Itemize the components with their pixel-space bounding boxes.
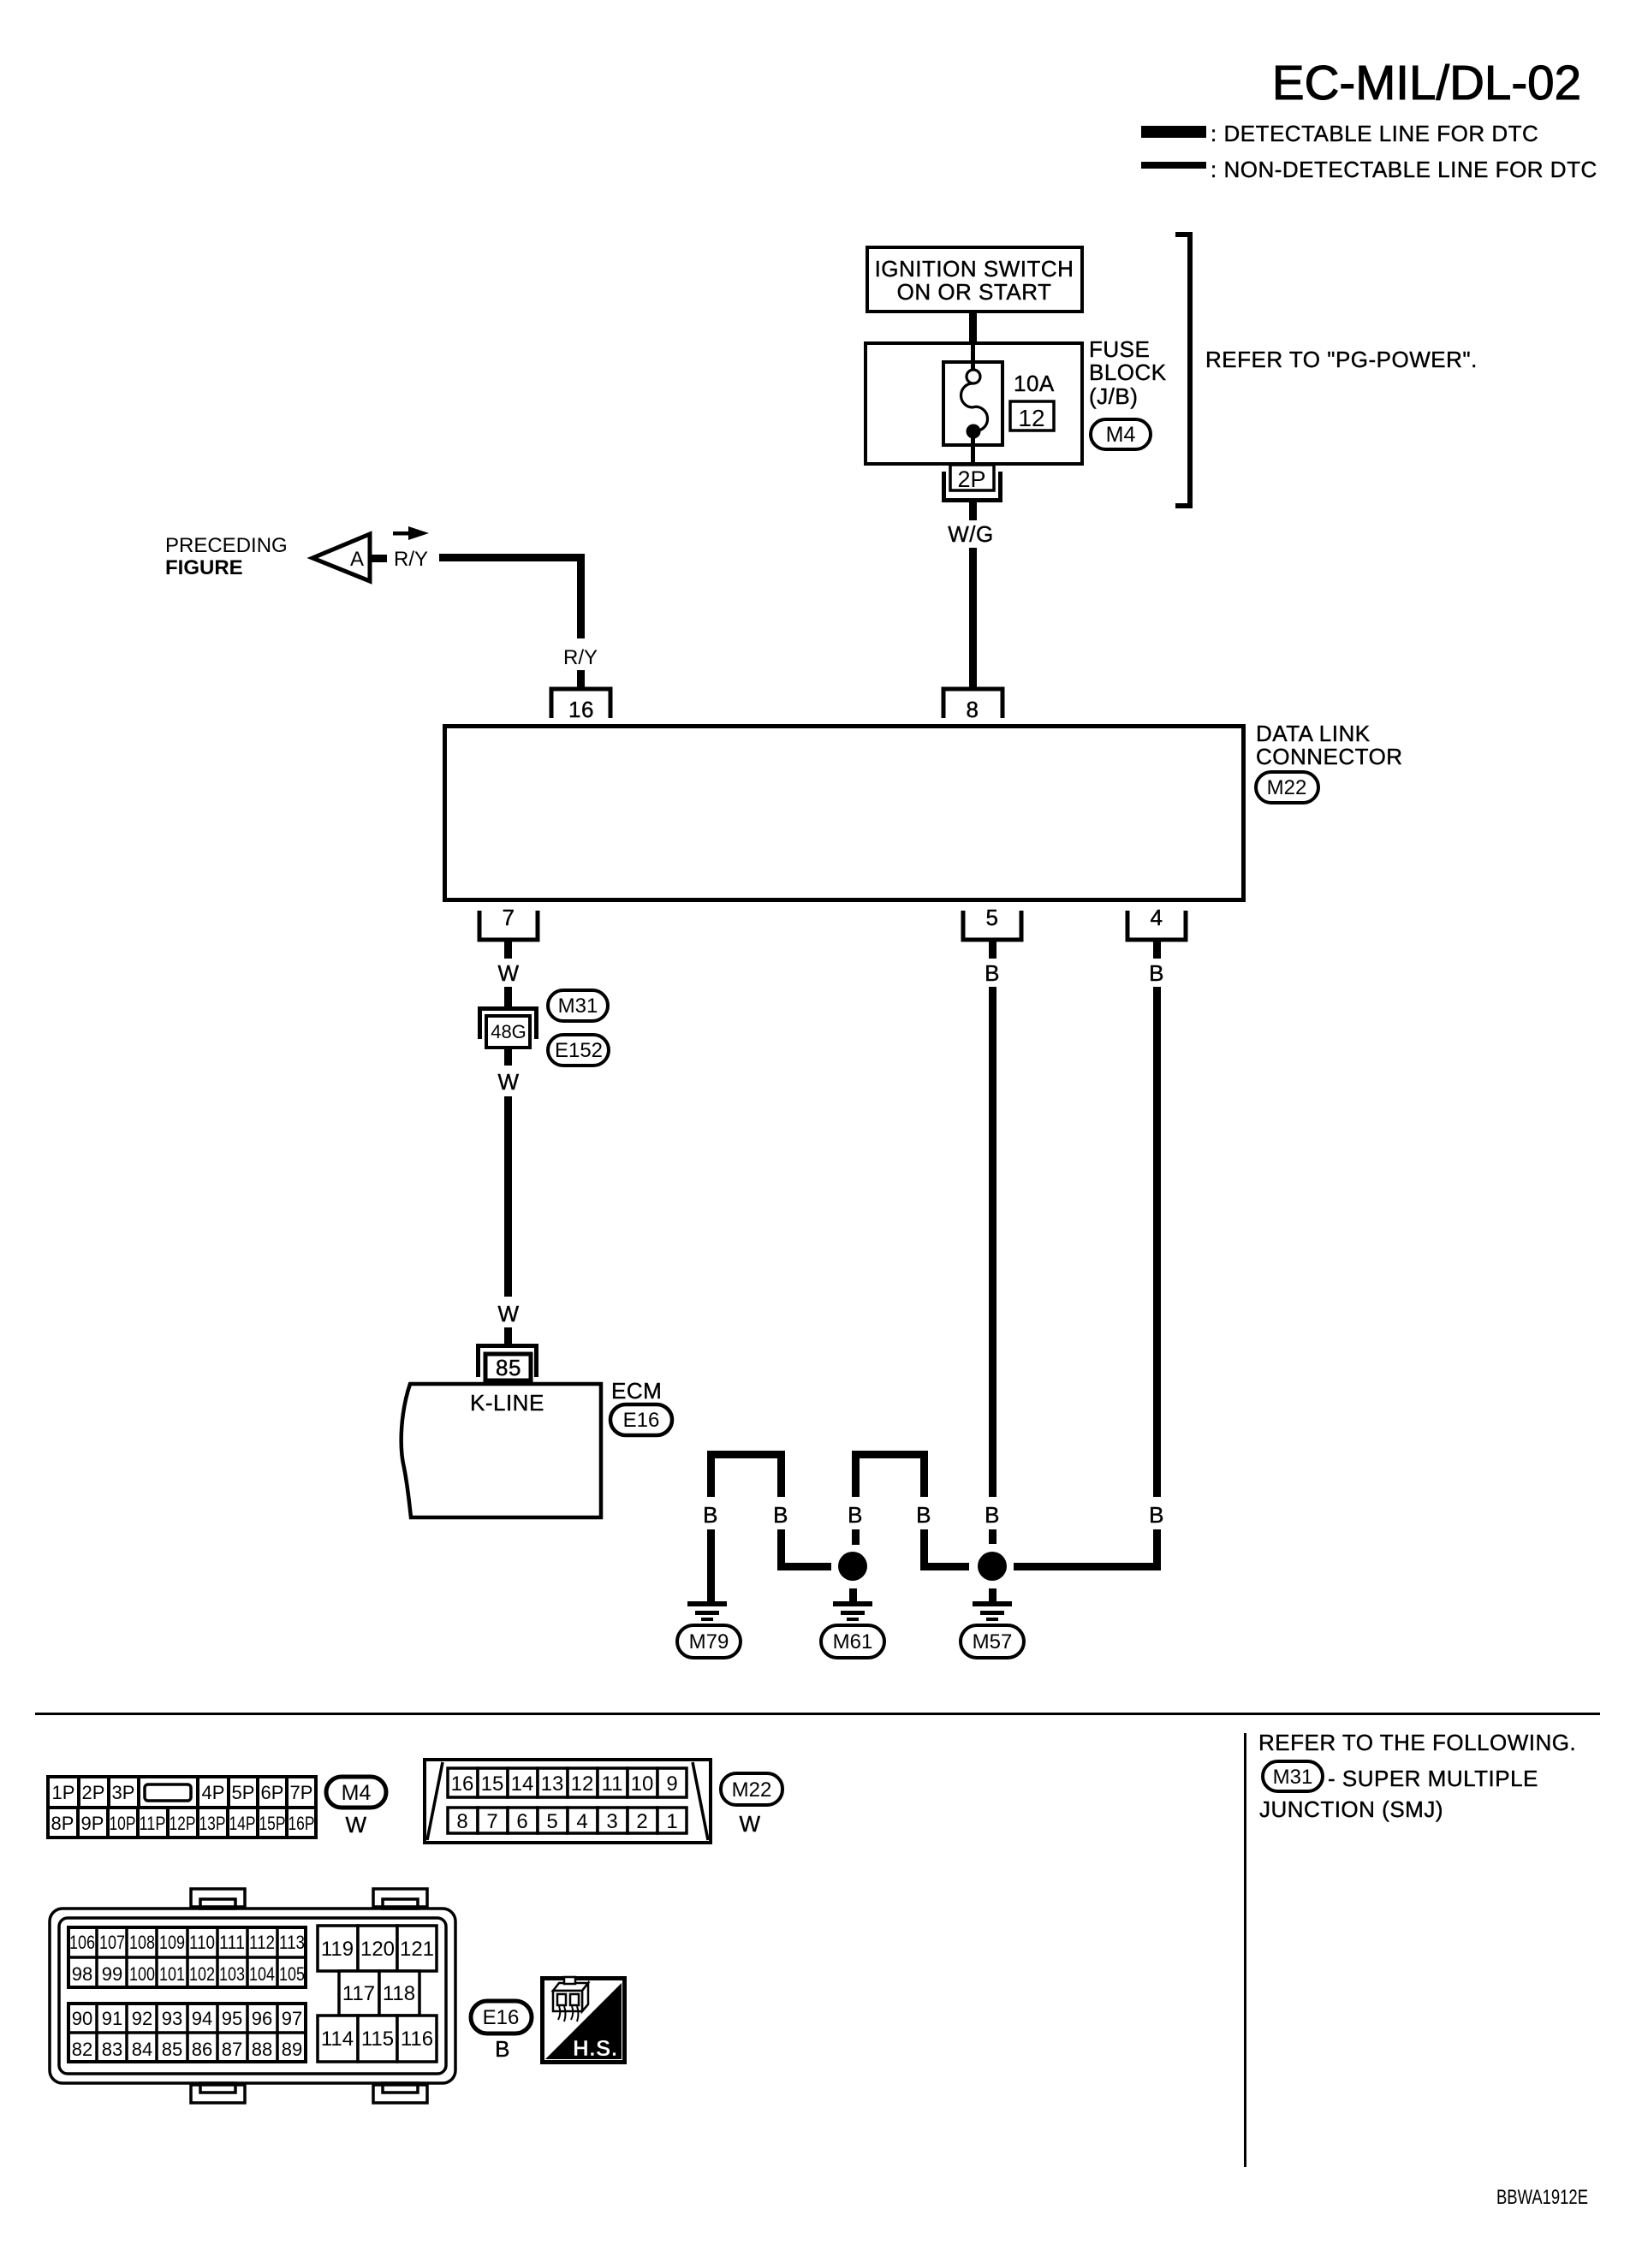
svg-text:9P: 9P [81, 1813, 104, 1834]
svg-text:EC-MIL/DL-02: EC-MIL/DL-02 [1272, 56, 1581, 110]
pin 7 of data link connector [479, 911, 538, 940]
wire pin 5 [989, 941, 996, 959]
svg-text:111: 111 [219, 1932, 245, 1953]
svg-text:A: A [350, 548, 364, 571]
svg-text:BLOCK: BLOCK [1089, 359, 1167, 385]
svg-text:2P: 2P [82, 1782, 105, 1803]
svg-text:W: W [497, 1069, 519, 1095]
svg-text:5: 5 [546, 1810, 557, 1833]
svg-text:82: 82 [72, 2039, 92, 2060]
svg-text:M22: M22 [1267, 776, 1307, 799]
ground loop 2 right leg lower [920, 1529, 928, 1570]
pin 5 of data link connector [963, 911, 1021, 940]
data link connector box [445, 727, 1244, 900]
svg-text:90: 90 [72, 2008, 92, 2029]
svg-text:M4: M4 [1106, 423, 1136, 447]
connector E16 shell (footer) [50, 1909, 455, 2083]
connector M31 oval [548, 990, 608, 1021]
svg-text:B: B [495, 2036, 510, 2062]
E16 pin block upper-left [68, 1927, 306, 1987]
pin 8 of data link connector [943, 689, 1002, 718]
svg-text:5: 5 [986, 905, 999, 930]
H.S. connector glyph [553, 1977, 588, 2011]
svg-text:48G: 48G [491, 1021, 526, 1042]
SMJ connector 48G bracket [478, 1006, 538, 1011]
svg-text:ECM: ECM [611, 1378, 662, 1404]
svg-text:118: 118 [383, 1982, 415, 2005]
ground symbol M61 [833, 1601, 872, 1606]
svg-text:88: 88 [252, 2039, 272, 2060]
svg-text:3: 3 [606, 1810, 617, 1833]
connector M22 oval (footer) [721, 1773, 782, 1805]
svg-text:97: 97 [282, 2008, 302, 2029]
svg-text:108: 108 [129, 1932, 155, 1953]
fuse holder box [943, 362, 1002, 445]
svg-text:B: B [916, 1502, 931, 1528]
svg-text:95: 95 [222, 2008, 242, 2029]
wire 48G down [504, 1049, 512, 1066]
E16 pin block lower-left [68, 2004, 306, 2062]
svg-text:91: 91 [102, 2008, 122, 2029]
svg-text:104: 104 [249, 1963, 275, 1985]
svg-text:REFER TO "PG-POWER".: REFER TO "PG-POWER". [1205, 347, 1478, 372]
svg-text:DATA LINK: DATA LINK [1256, 721, 1371, 746]
svg-text:6P: 6P [261, 1782, 284, 1803]
connector M61 oval [821, 1625, 884, 1658]
svg-text:15: 15 [481, 1772, 504, 1796]
svg-text:114: 114 [321, 2028, 354, 2051]
svg-text:B: B [1149, 1502, 1164, 1528]
ground loop 2 left leg lower [852, 1529, 860, 1545]
ground loop 1 right leg lower [777, 1529, 785, 1570]
svg-text:14P: 14P [229, 1813, 256, 1834]
ground symbol M57 [973, 1601, 1012, 1606]
ground loop 1 left leg [707, 1451, 715, 1497]
wire long run to ECM [504, 1096, 512, 1297]
ground loop 1 left leg lower / wire to M79 ground [707, 1529, 715, 1602]
svg-text:M22: M22 [732, 1778, 772, 1802]
svg-text:10A: 10A [1014, 371, 1055, 396]
svg-text:113: 113 [279, 1932, 305, 1953]
svg-text:110: 110 [189, 1932, 215, 1953]
svg-text:85: 85 [496, 1355, 521, 1380]
svg-text:M61: M61 [833, 1630, 873, 1654]
svg-text:2P: 2P [957, 466, 985, 492]
svg-text:16: 16 [568, 697, 594, 722]
svg-text:W: W [497, 960, 519, 986]
svg-text:CONNECTOR: CONNECTOR [1256, 744, 1403, 769]
svg-text:120: 120 [360, 1938, 395, 1961]
svg-text:99: 99 [102, 1963, 122, 1985]
legend detectable line swatch [1141, 126, 1206, 138]
legend non-detectable line swatch [1141, 162, 1206, 169]
svg-text:W: W [345, 1812, 366, 1838]
svg-text:16P: 16P [289, 1813, 315, 1834]
ground loop 2 top bar [852, 1451, 928, 1458]
svg-text:1: 1 [666, 1810, 677, 1833]
svg-text:M57: M57 [973, 1630, 1013, 1654]
svg-text:W: W [739, 1811, 760, 1837]
svg-text:116: 116 [401, 2028, 433, 2051]
svg-text:15P: 15P [259, 1813, 286, 1834]
svg-text:93: 93 [162, 2008, 182, 2029]
connector E16 oval (footer) [471, 2001, 532, 2033]
svg-text:2: 2 [636, 1810, 647, 1833]
svg-text:8: 8 [967, 697, 979, 722]
svg-text:119: 119 [321, 1938, 354, 1961]
triangle connector A to preceding figure [312, 534, 370, 581]
wire to pin 85 [504, 1327, 512, 1346]
svg-text:8P: 8P [51, 1813, 74, 1834]
svg-text:94: 94 [192, 2008, 212, 2029]
svg-text:106: 106 [69, 1932, 95, 1953]
svg-text:B: B [703, 1502, 718, 1528]
pin 85 bracket [476, 1344, 538, 1348]
svg-text:4: 4 [1151, 905, 1163, 930]
svg-text:W: W [497, 1301, 519, 1327]
wire R/Y to pin 16 [577, 670, 585, 688]
svg-text:12P: 12P [170, 1813, 196, 1834]
junction dot M57 [978, 1552, 1007, 1581]
E16 pin block right [318, 1926, 437, 2062]
connector E152 oval [548, 1035, 609, 1066]
svg-text:83: 83 [102, 2039, 122, 2060]
svg-text:112: 112 [249, 1932, 275, 1953]
connector M4 oval (footer) [326, 1777, 386, 1808]
svg-text:89: 89 [282, 2039, 302, 2060]
svg-text:: DETECTABLE LINE FOR DTC: : DETECTABLE LINE FOR DTC [1211, 121, 1538, 146]
connector 2P box [950, 465, 994, 490]
wire W to 48G [504, 987, 512, 1011]
pin 4 of data link connector [1127, 911, 1186, 940]
ignition switch box [867, 247, 1082, 312]
ground loop 2 left leg [852, 1451, 860, 1497]
svg-text:14: 14 [511, 1772, 534, 1796]
svg-text:10P: 10P [110, 1813, 136, 1834]
svg-text:11P: 11P [140, 1813, 166, 1834]
svg-text:7: 7 [486, 1810, 497, 1833]
svg-text:M31: M31 [1273, 1766, 1313, 1789]
SMJ connector 48G box [486, 1016, 530, 1048]
wire pin 5 to junction M57 [989, 987, 996, 1497]
svg-text:6: 6 [516, 1810, 527, 1833]
ground loop 1 right leg [777, 1451, 785, 1497]
svg-text:FUSE: FUSE [1089, 336, 1150, 362]
junction dot M61 [838, 1552, 867, 1581]
svg-text:4P: 4P [202, 1782, 225, 1803]
svg-text:R/Y: R/Y [394, 548, 428, 571]
svg-text:PRECEDING: PRECEDING [165, 534, 288, 557]
separator line [35, 1713, 1600, 1715]
svg-text:ON OR START: ON OR START [897, 279, 1052, 305]
wire stub from triangle [370, 555, 387, 562]
fuse block box M4 [866, 343, 1082, 464]
svg-text:85: 85 [162, 2039, 182, 2060]
svg-text:M31: M31 [558, 994, 598, 1018]
pin 16 of data link connector [551, 689, 610, 718]
svg-text:9: 9 [666, 1772, 677, 1796]
wire 2P to W/G [969, 502, 977, 520]
bracket REFER TO PG-POWER [1175, 235, 1190, 506]
svg-text:M4: M4 [342, 1781, 372, 1805]
svg-text:E152: E152 [555, 1039, 603, 1062]
wire pin 7 [504, 941, 512, 959]
connector M31 oval (footer) [1263, 1761, 1323, 1791]
svg-text:13: 13 [541, 1772, 564, 1796]
E16 shell tabs [191, 1889, 427, 2103]
ground loop 1 top bar [707, 1451, 785, 1458]
svg-text:87: 87 [222, 2039, 242, 2060]
svg-text:E16: E16 [623, 1409, 660, 1432]
svg-text:R/Y: R/Y [563, 646, 598, 669]
svg-text:(J/B): (J/B) [1089, 383, 1138, 409]
svg-text:IGNITION SWITCH: IGNITION SWITCH [875, 256, 1074, 282]
wire out of fuse [971, 435, 975, 463]
svg-text:101: 101 [159, 1963, 185, 1985]
wire pin 4 down [1153, 987, 1161, 1497]
wire R/Y horizontal run [439, 554, 585, 561]
wire into fuse [971, 341, 975, 371]
wire ignition switch to fuse block [969, 312, 977, 343]
wire to junction M57 [920, 1563, 969, 1570]
wire junction M57 to ground [989, 1588, 996, 1601]
svg-text:103: 103 [219, 1963, 245, 1985]
connector M57 oval [961, 1625, 1024, 1658]
svg-text:B: B [773, 1502, 788, 1528]
svg-text:107: 107 [99, 1932, 125, 1953]
svg-text:4: 4 [576, 1810, 587, 1833]
svg-text:M79: M79 [689, 1630, 729, 1654]
svg-text:- SUPER MULTIPLE: - SUPER MULTIPLE [1328, 1766, 1538, 1791]
H.S. view logo [543, 1979, 625, 2063]
footer vertical divider [1244, 1733, 1246, 2167]
connector 2P bracket [942, 472, 946, 502]
ECM box [402, 1384, 601, 1517]
svg-text:115: 115 [361, 2028, 394, 2051]
ground symbol M79 [687, 1601, 727, 1606]
svg-text:B: B [985, 960, 1000, 986]
svg-text:121: 121 [400, 1938, 434, 1961]
svg-text:11: 11 [602, 1772, 623, 1796]
svg-text:K-LINE: K-LINE [470, 1390, 544, 1416]
wire junction M57 to pin 4 [1014, 1563, 1161, 1570]
svg-text:12: 12 [571, 1772, 594, 1796]
connector M79 oval [677, 1625, 741, 1658]
svg-text:1P: 1P [52, 1782, 75, 1803]
svg-text:8: 8 [456, 1810, 467, 1833]
svg-text:FIGURE: FIGURE [165, 556, 243, 579]
svg-text:3P: 3P [112, 1782, 135, 1803]
ground loop 2 right leg [920, 1451, 928, 1497]
svg-text:16: 16 [451, 1772, 474, 1796]
svg-text:109: 109 [159, 1932, 185, 1953]
svg-text:96: 96 [252, 2008, 272, 2029]
svg-text:7P: 7P [290, 1782, 313, 1803]
svg-text:E16: E16 [483, 2006, 520, 2029]
svg-text:B: B [1149, 960, 1164, 986]
wire W/G to pin 8 [969, 548, 977, 689]
svg-text:10: 10 [631, 1772, 654, 1796]
svg-text:105: 105 [279, 1963, 305, 1985]
svg-text:7: 7 [503, 905, 515, 930]
arrow marker [393, 531, 413, 536]
svg-text:B: B [848, 1502, 863, 1528]
svg-text:H.S.: H.S. [573, 2035, 618, 2061]
wire junction M61 to ground [849, 1588, 857, 1601]
svg-text:5P: 5P [232, 1782, 255, 1803]
svg-text:: NON-DETECTABLE LINE FOR DTC: : NON-DETECTABLE LINE FOR DTC [1211, 157, 1597, 182]
fuse element 10A [967, 370, 980, 383]
connector M4 pin table [48, 1777, 316, 1838]
svg-text:86: 86 [192, 2039, 212, 2060]
M4 empty slot [145, 1784, 191, 1801]
svg-text:102: 102 [189, 1963, 215, 1985]
svg-text:B: B [985, 1502, 1000, 1528]
fuse number 12 box [1010, 401, 1054, 430]
svg-text:92: 92 [132, 2008, 152, 2029]
connector E16 oval [610, 1404, 672, 1435]
svg-text:13P: 13P [199, 1813, 226, 1834]
wire R/Y vertical run [577, 554, 585, 638]
svg-text:100: 100 [129, 1963, 155, 1985]
svg-text:98: 98 [72, 1963, 92, 1985]
svg-text:BBWA1912E: BBWA1912E [1496, 2186, 1588, 2209]
connector M22 oval [1256, 772, 1318, 803]
pin 85 box [485, 1354, 531, 1380]
svg-text:REFER TO THE FOLLOWING.: REFER TO THE FOLLOWING. [1258, 1730, 1576, 1755]
svg-text:117: 117 [342, 1982, 375, 2005]
wire pin 4 [1153, 941, 1161, 959]
svg-text:84: 84 [132, 2039, 152, 2060]
svg-text:12: 12 [1018, 405, 1044, 431]
connector M22 pin table (OBD) [425, 1760, 711, 1843]
svg-text:W/G: W/G [948, 521, 994, 547]
connector M4 oval [1091, 419, 1151, 449]
svg-text:JUNCTION (SMJ): JUNCTION (SMJ) [1259, 1796, 1443, 1822]
wire to junction M61 [777, 1563, 831, 1570]
